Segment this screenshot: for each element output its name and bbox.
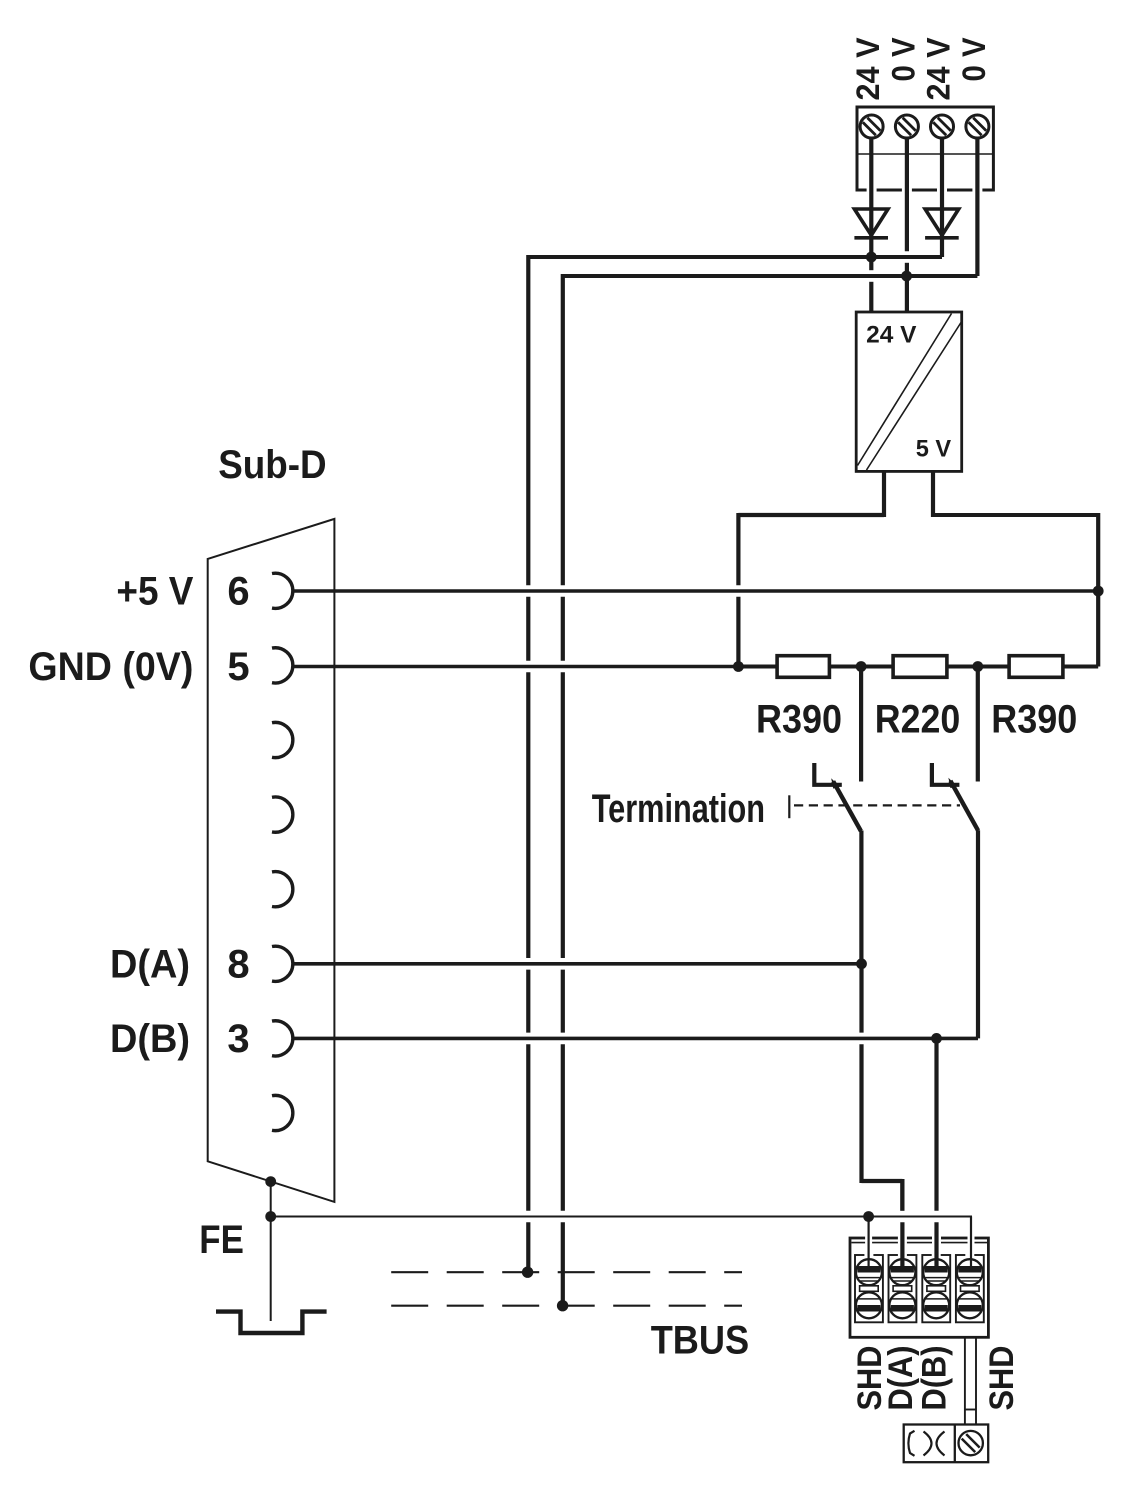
wire: 0V junction down to DC/DC converter input (905, 276, 909, 313)
wire: terminal 3 (24V) down through diode D2 (940, 137, 944, 257)
junction: D(B) wire / down wire (931, 1033, 942, 1044)
wire: +5V branch vertical down to resistor row (1096, 513, 1100, 667)
terminal 2 top screw (889, 1259, 915, 1285)
resistor R220 (middle) (893, 656, 947, 678)
wire: R220/R390 node down to switch 2 (976, 667, 980, 782)
terminal 2 bottom screw (889, 1292, 915, 1318)
terminal body 4 (SHD) (956, 1255, 984, 1322)
wire: converter output right (+5V side) down (931, 471, 935, 517)
wire: FE into terminal 1 (867, 1217, 869, 1271)
wire: switch 2 down to D(B) (976, 830, 980, 1038)
wire: 24V rail (horizontal) (528, 255, 942, 259)
junction: 0V wire to TBUS line 2 (557, 1300, 568, 1311)
junction: R390-R220 node (D(A) termination) (856, 661, 867, 672)
Sub-D pin 5 contact arc (272, 648, 293, 683)
terminal 4 clamp window (961, 1286, 980, 1292)
terminal 3 top screw (923, 1259, 949, 1285)
Sub-D pin 3 contact arc (272, 1021, 293, 1056)
termination actuator tick (788, 795, 790, 818)
svg-text:GND (0V): GND (0V) (28, 645, 193, 689)
terminal body 3 (D(B)) (922, 1255, 950, 1322)
svg-text:0 V: 0 V (885, 37, 921, 82)
terminal 1 top screw (856, 1259, 882, 1285)
shield clamp jaws (924, 1432, 932, 1456)
screw terminals (screws with slots) (860, 115, 883, 138)
Sub-D pin (nc) contact arc (272, 1095, 293, 1130)
wire: terminal 2 (0V) down to 0V rail junction (break at 24V rail) (905, 137, 909, 251)
TBUS dashed bus line 2 (391, 1305, 742, 1307)
svg-text:D(A): D(A) (882, 1346, 920, 1411)
svg-text:5 V: 5 V (916, 436, 951, 463)
wire: pin 5 to GND junction (293, 665, 739, 669)
junction: FE line / SHD terminal 1 branch (863, 1211, 874, 1222)
terminal block X1 (24V supply, 4 screw terminals) (857, 107, 993, 190)
resistor R390 (left) (777, 656, 829, 678)
svg-text:R390: R390 (991, 698, 1077, 742)
shield clamp spring bracket (908, 1431, 914, 1456)
svg-text:R220: R220 (875, 698, 961, 742)
wire: resistor row (738, 665, 1098, 669)
wire: 24V rail junction down to DC/DC converter input (break at 0V rail) (869, 257, 873, 270)
Sub-D pin 8 contact arc (272, 946, 293, 981)
terminal 4 top screw (957, 1259, 983, 1285)
svg-text:Termination: Termination (592, 787, 765, 831)
svg-text:5: 5 (227, 645, 249, 689)
svg-text:0 V: 0 V (956, 37, 992, 82)
Sub-D pin 6 contact arc (272, 573, 293, 608)
terminal 2 clamp window (893, 1286, 912, 1292)
wire: converter output left (GND side) down (882, 471, 886, 517)
wire: pin 6 to +5V rail (293, 589, 1099, 593)
wire: D(B) into terminal 3 (934, 1222, 938, 1270)
wire: D(B) down to bottom terminal (break at FE line) (934, 1038, 938, 1210)
termination switch S2 blade (950, 781, 978, 831)
terminal 1 bottom screw (856, 1292, 882, 1318)
converter diagonal separator lines (858, 314, 952, 466)
junction: GND / R390 left (733, 661, 744, 672)
Sub-D pin (nc) contact arc (272, 872, 293, 907)
junction: 24V wire to TBUS line 1 (522, 1267, 533, 1278)
Sub-D pin (nc) contact arc (272, 722, 293, 757)
svg-text:D(B): D(B) (110, 1017, 190, 1061)
terminal 1 clamp window (860, 1286, 879, 1292)
svg-text:D(A): D(A) (110, 943, 190, 987)
wire: terminal 4 (0V) down (975, 137, 979, 276)
wire: FE down to DIN rail earth (270, 1217, 272, 1322)
svg-text:Sub-D: Sub-D (218, 443, 326, 487)
shield clamp screw (959, 1431, 983, 1455)
terminal body 1 (SHD) (855, 1255, 883, 1322)
wire: R390/R220 node down to switch 1 (859, 667, 863, 782)
wire: 5V-side horizontal rail left segment (738, 513, 884, 517)
wire: FE horizontal line to SHD terminals (271, 1216, 972, 1218)
svg-text:24 V: 24 V (921, 37, 957, 101)
svg-text:SHD: SHD (983, 1346, 1021, 1411)
terminal body 2 (D(A)) (889, 1255, 917, 1322)
wire: pin 3 D(B) to switch 2 (293, 1037, 978, 1041)
DC/DC converter U1 (24 V to 5 V) (856, 312, 962, 471)
DIN rail functional earth symbol (216, 1312, 327, 1333)
terminal 4 bottom screw (957, 1292, 983, 1318)
diode D2 (925, 209, 959, 235)
wire: D(A) into terminal 2 (900, 1179, 904, 1211)
Sub-D pin (nc) contact arc (272, 797, 293, 832)
junction: FE node (265, 1211, 276, 1222)
wire: terminal 1 (24V) down through diode D1 to 24V rail junction (869, 137, 873, 253)
svg-text:TBUS: TBUS (651, 1319, 750, 1363)
svg-text:8: 8 (227, 943, 249, 987)
wire: switch 1 to D(A) (859, 831, 863, 964)
wire: D(A) down to bottom terminal (break at D(B) and FE lines, jog right) (859, 964, 863, 1033)
termination switch S2 (fixed contact hook) (932, 763, 960, 785)
junction: +5V wire to pin 6 (1093, 586, 1104, 597)
svg-text:6: 6 (227, 570, 249, 614)
TBUS dashed bus line 1 (391, 1271, 742, 1273)
termination switch S1 blade (833, 781, 861, 831)
wire: 24V long vertical to TBUS (breaks at crossings) (526, 255, 530, 585)
svg-text:R390: R390 (756, 698, 842, 742)
junction: R220-R390 node (D(B) termination) (972, 661, 983, 672)
wire: 0V rail (horizontal) (563, 274, 978, 278)
svg-text:3: 3 (227, 1017, 249, 1061)
diode D1 (854, 209, 888, 235)
svg-text:FE: FE (199, 1218, 244, 1262)
junction: FE on Sub-D shell (265, 1176, 276, 1187)
svg-text:24 V: 24 V (866, 322, 916, 349)
terminal 3 clamp window (927, 1286, 946, 1292)
wire: GND branch vertical down to resistor row (breaks at +5V wire) (736, 513, 740, 585)
wire: 5V-side horizontal rail right segment (933, 513, 1098, 517)
wire: FE into terminal 4 (970, 1217, 972, 1271)
resistor R390 (right) (1009, 656, 1063, 678)
shield connection stub (hollow wire) (964, 1337, 966, 1424)
svg-text:24 V: 24 V (850, 37, 886, 101)
terminal 3 bottom screw (923, 1292, 949, 1318)
Sub-D connector body (208, 519, 335, 1202)
wire: FE drop from shell (270, 1182, 272, 1217)
junction: D(A) wire / switch 1 (856, 958, 867, 969)
svg-text:D(B): D(B) (916, 1346, 954, 1411)
junction: 0V rail / terminal 2 (901, 271, 912, 282)
wire: 0V long vertical to TBUS (breaks at crossings) (561, 274, 565, 585)
svg-text:+5 V: +5 V (116, 570, 193, 614)
termination linkage dashed line (794, 804, 960, 806)
wire: pin 8 D(A) to switch 1 (293, 962, 862, 966)
termination switch S1 (fixed contact hook) (814, 763, 842, 785)
terminal block X2 (TBUS connector: SHD, D(A), D(B), SHD) (850, 1238, 988, 1337)
shield clamp box (904, 1425, 989, 1463)
junction: 24V rail / terminal 1 (866, 252, 877, 263)
